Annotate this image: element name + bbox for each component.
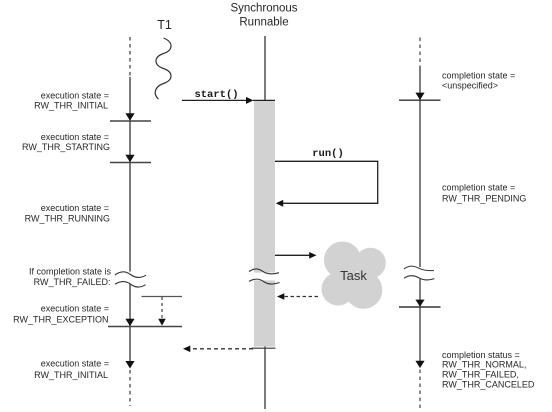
svg-text:If completion state is: If completion state is bbox=[29, 267, 112, 277]
svg-text:RW_THR_EXCEPTION: RW_THR_EXCEPTION bbox=[13, 315, 108, 325]
svg-text:RW_THR_CANCELED: RW_THR_CANCELED bbox=[442, 379, 535, 389]
svg-text:RW_THR_PENDING: RW_THR_PENDING bbox=[442, 193, 526, 203]
svg-text:execution state =: execution state = bbox=[41, 132, 109, 142]
svg-text:RW_THR_FAILED:: RW_THR_FAILED: bbox=[34, 277, 111, 287]
svg-text:T1: T1 bbox=[157, 18, 172, 32]
svg-text:Synchronous: Synchronous bbox=[230, 3, 297, 15]
svg-text:Runnable: Runnable bbox=[239, 17, 288, 29]
svg-text:RW_THR_NORMAL,: RW_THR_NORMAL, bbox=[442, 359, 526, 369]
svg-text:execution state =: execution state = bbox=[41, 203, 109, 213]
svg-text:<unspecified>: <unspecified> bbox=[442, 81, 498, 91]
svg-text:completion state =: completion state = bbox=[442, 183, 515, 193]
svg-text:RW_THR_RUNNING: RW_THR_RUNNING bbox=[25, 214, 110, 224]
svg-text:start(): start() bbox=[194, 89, 238, 101]
svg-text:RW_THR_STARTING: RW_THR_STARTING bbox=[22, 142, 110, 152]
svg-text:Task: Task bbox=[340, 268, 367, 283]
svg-text:execution state =: execution state = bbox=[41, 90, 109, 100]
svg-text:execution state =: execution state = bbox=[41, 303, 109, 313]
svg-text:execution state =: execution state = bbox=[41, 358, 109, 368]
svg-text:RW_THR_INITIAL: RW_THR_INITIAL bbox=[34, 101, 108, 111]
svg-text:completion state =: completion state = bbox=[442, 71, 515, 81]
svg-text:completion status =: completion status = bbox=[442, 350, 520, 360]
svg-text:RW_THR_INITIAL: RW_THR_INITIAL bbox=[34, 370, 108, 380]
svg-text:run(): run() bbox=[312, 148, 344, 160]
svg-text:RW_THR_FAILED,: RW_THR_FAILED, bbox=[442, 369, 519, 379]
